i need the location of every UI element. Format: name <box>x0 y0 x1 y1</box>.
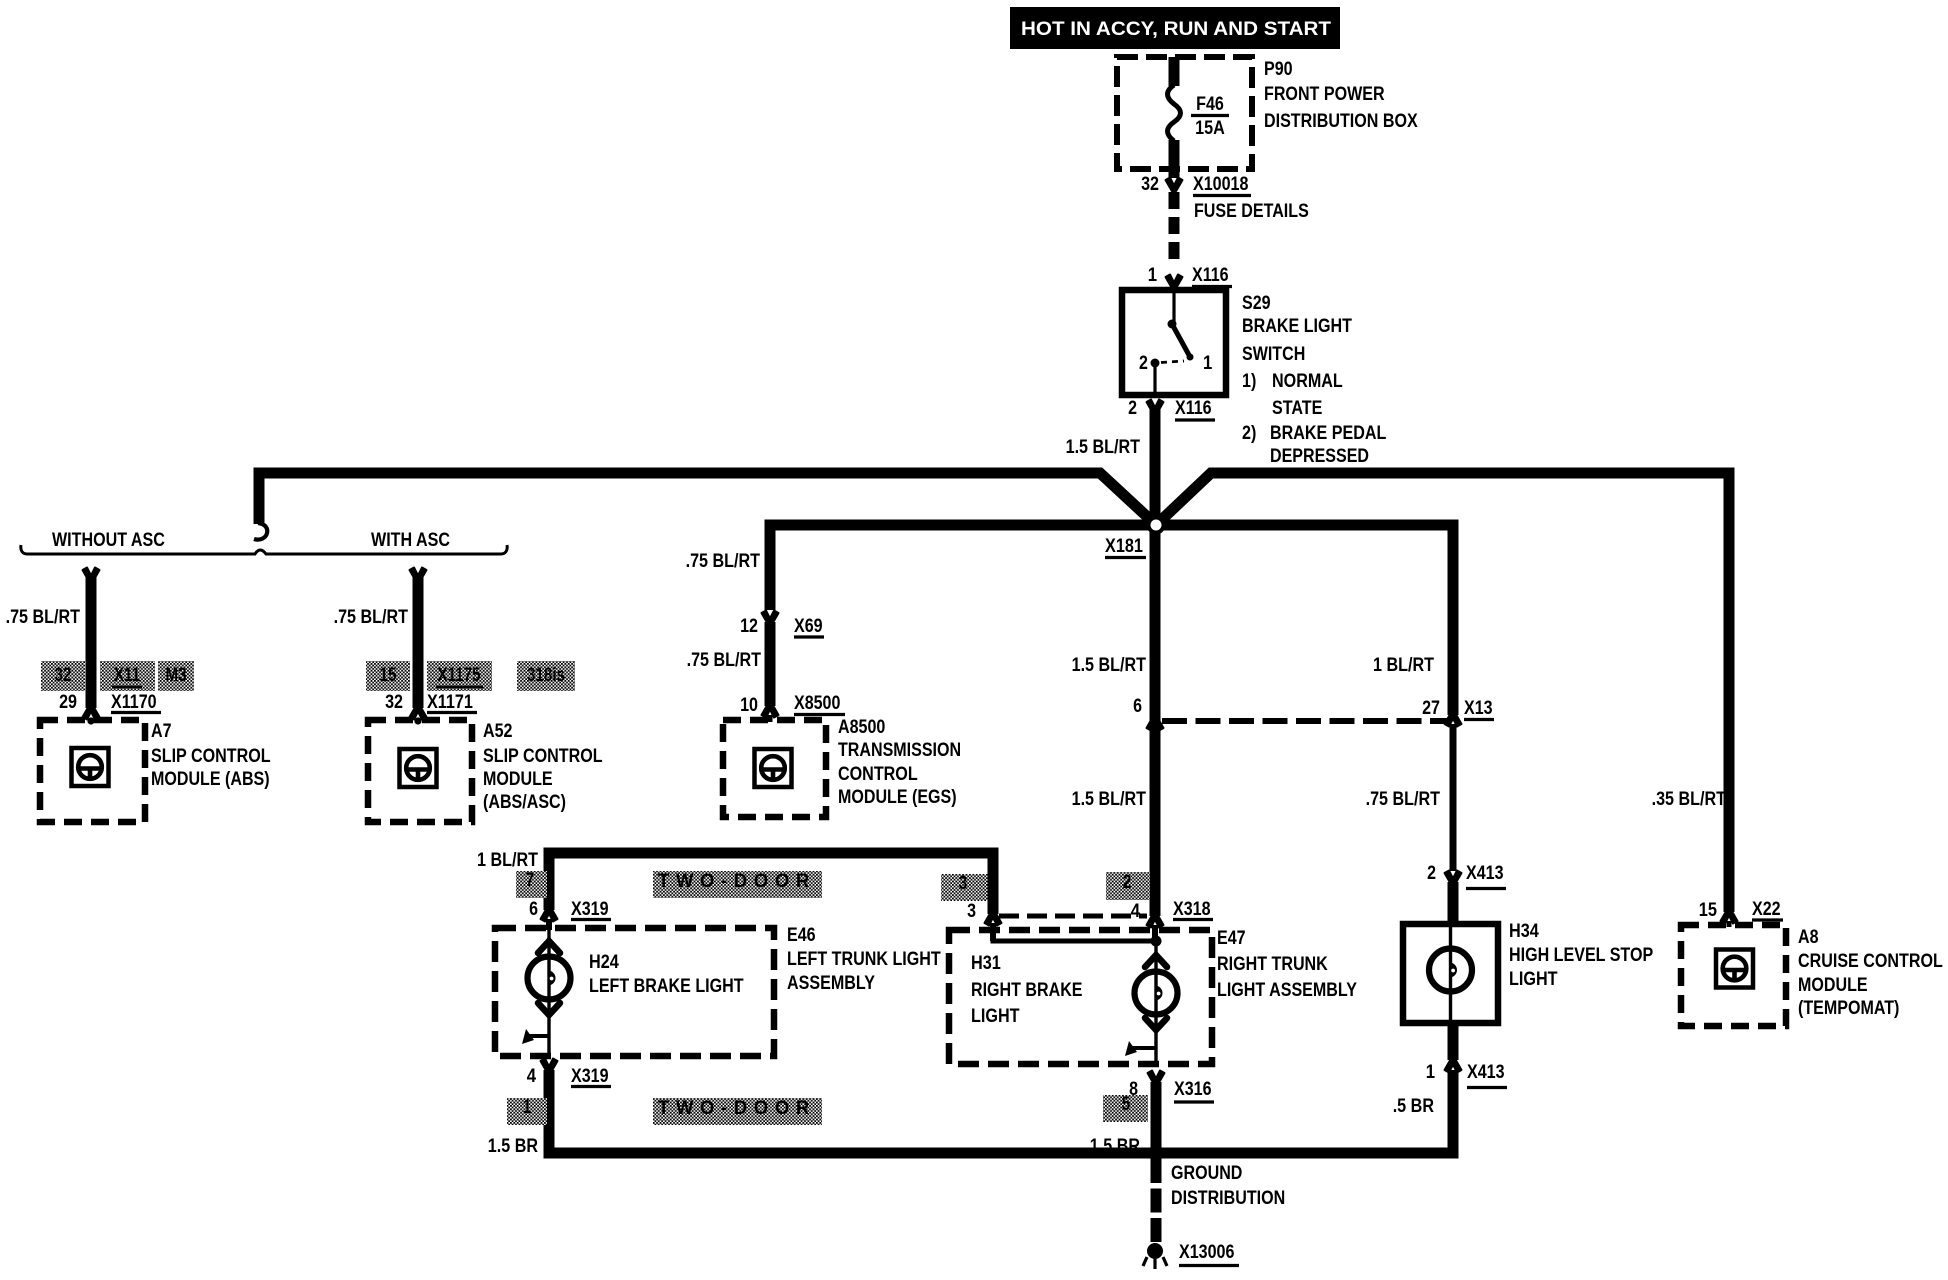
wire inside E47 <box>1154 941 1157 1066</box>
label X319 upper <box>571 899 611 920</box>
label X1171 <box>427 692 477 713</box>
label H34 HIGH LEVEL STOP LIGHT <box>1509 921 1653 990</box>
gray box X11 <box>100 661 155 691</box>
wire H24 down to ground bus <box>544 1070 555 1159</box>
label A7 SLIP CONTROL MODULE (ABS) <box>151 721 271 790</box>
svg-text:X22: X22 <box>1752 899 1781 920</box>
label 1 BL/RT (X13 branch) <box>1373 655 1434 676</box>
connector X69 pin 12 (fork) <box>762 611 779 625</box>
svg-text:BRAKE LIGHT: BRAKE LIGHT <box>1242 316 1352 337</box>
svg-text:SWITCH: SWITCH <box>1242 344 1305 365</box>
label .5 BR <box>1393 1096 1435 1117</box>
connector X318 pin 4 (fork) <box>1147 914 1164 941</box>
wire H31 down to ground bus <box>1151 1082 1162 1153</box>
svg-text:1.5 BL/RT: 1.5 BL/RT <box>1066 437 1141 458</box>
label X22 <box>1752 899 1783 920</box>
svg-text:LIGHT: LIGHT <box>971 1006 1020 1027</box>
svg-text:WITHOUT ASC: WITHOUT ASC <box>52 530 165 551</box>
svg-text:1.5 BL/RT: 1.5 BL/RT <box>1072 789 1147 810</box>
svg-text:27: 27 <box>1422 698 1440 719</box>
wire switch internal top <box>1172 288 1175 324</box>
svg-text:.5 BR: .5 BR <box>1393 1096 1435 1117</box>
svg-text:GROUND: GROUND <box>1171 1163 1242 1184</box>
svg-text:X8500: X8500 <box>794 693 840 714</box>
svg-text:X316: X316 <box>1174 1079 1212 1100</box>
svg-text:.75 BL/RT: .75 BL/RT <box>334 607 409 628</box>
svg-text:.35 BL/RT: .35 BL/RT <box>1652 789 1727 810</box>
lamp H31 contact upper <box>1145 955 1167 967</box>
svg-text:LIGHT ASSEMBLY: LIGHT ASSEMBLY <box>1217 980 1357 1001</box>
svg-text:X181: X181 <box>1105 536 1143 557</box>
label S29 BRAKE LIGHT SWITCH <box>1242 293 1387 467</box>
label H24 LEFT BRAKE LIGHT <box>589 952 744 997</box>
gray box M3 <box>158 661 194 691</box>
svg-text:WITH ASC: WITH ASC <box>371 530 450 551</box>
svg-text:X11: X11 <box>114 665 141 686</box>
wire trunk top horizontal <box>544 848 999 859</box>
svg-text:1: 1 <box>1148 265 1158 286</box>
label .35 BL/RT <box>1652 789 1727 810</box>
svg-text:5: 5 <box>1122 1094 1131 1115</box>
hook to ASC bracket <box>254 523 267 540</box>
wire pin3 link inside E47 <box>991 938 1156 944</box>
wire dashed X318 link <box>999 914 1147 919</box>
gray box 7 <box>516 870 547 898</box>
wire dashed X13 link <box>1162 718 1447 724</box>
svg-text:2: 2 <box>1123 872 1132 893</box>
svg-text:P90: P90 <box>1264 59 1293 80</box>
junction dot E47 <box>1151 936 1162 947</box>
svg-text:3: 3 <box>967 901 976 922</box>
svg-text:A52: A52 <box>483 721 513 742</box>
svg-text:DISTRIBUTION: DISTRIBUTION <box>1171 1188 1285 1209</box>
svg-text:HIGH LEVEL STOP: HIGH LEVEL STOP <box>1509 945 1653 966</box>
svg-text:.75 BL/RT: .75 BL/RT <box>6 607 81 628</box>
svg-text:15: 15 <box>380 665 397 686</box>
svg-text:LEFT BRAKE LIGHT: LEFT BRAKE LIGHT <box>589 976 744 997</box>
fuse F46 15A symbol <box>1168 85 1181 141</box>
svg-text:318is: 318is <box>527 665 565 686</box>
wire X13 to X413 <box>1450 724 1457 871</box>
label 2 <box>1128 398 1137 419</box>
connector X116 pin 2 (fork) <box>1147 400 1164 414</box>
label X116 <box>1192 265 1232 287</box>
svg-text:1 BL/RT: 1 BL/RT <box>477 850 538 871</box>
svg-text:1: 1 <box>523 1097 532 1118</box>
wire upper distribution right with diagonal <box>1155 473 1735 526</box>
connector X1171 pin 32 (fork) <box>410 706 427 725</box>
svg-text:A8: A8 <box>1798 927 1819 948</box>
label X8500 <box>794 693 845 715</box>
label 29 <box>59 692 77 713</box>
label E47 RIGHT TRUNK LIGHT ASSEMBLY <box>1217 928 1357 1001</box>
wire H34 down to ground bus <box>1448 1070 1459 1159</box>
svg-text:1): 1) <box>1242 371 1256 392</box>
label F46 15A <box>1191 94 1229 139</box>
label 1.5 BR (right) <box>1090 1136 1140 1157</box>
connector X316 pin 8 (fork) <box>1148 1071 1165 1085</box>
wire left drop to ASC bracket <box>254 468 265 525</box>
svg-text:STATE: STATE <box>1272 398 1322 419</box>
svg-text:(TEMPOMAT): (TEMPOMAT) <box>1798 998 1899 1019</box>
svg-text:X319: X319 <box>571 899 609 920</box>
svg-text:1.5 BL/RT: 1.5 BL/RT <box>1072 655 1147 676</box>
label 6 <box>1133 696 1142 717</box>
wire X13 branch upper <box>1448 520 1459 716</box>
wire A8 branch <box>1724 468 1735 913</box>
wire trunk left drop <box>544 848 555 911</box>
lamp H34 box <box>1403 924 1498 1023</box>
svg-text:X1175: X1175 <box>437 665 480 686</box>
svg-text:FUSE DETAILS: FUSE DETAILS <box>1194 201 1309 222</box>
wire fuse bottom <box>1169 140 1180 178</box>
wire fuse top <box>1169 57 1180 86</box>
label X319 lower <box>571 1066 611 1087</box>
label X318 <box>1173 899 1213 920</box>
wire H34 out <box>1448 1023 1459 1060</box>
wire switch internal bottom <box>1153 363 1156 392</box>
module A52 icon <box>400 749 437 787</box>
wire dashed fuse to switch <box>1169 192 1180 266</box>
label 12 <box>740 616 758 637</box>
svg-text:.75 BL/RT: .75 BL/RT <box>1366 789 1441 810</box>
svg-text:E47: E47 <box>1217 928 1246 949</box>
svg-text:A7: A7 <box>151 721 172 742</box>
svg-text:SLIP CONTROL: SLIP CONTROL <box>151 746 271 767</box>
svg-text:RIGHT TRUNK: RIGHT TRUNK <box>1217 954 1328 975</box>
label 1 (X413) <box>1426 1062 1436 1083</box>
connector X13 pin 27 (fork) <box>1445 713 1462 727</box>
junction ground node <box>1148 1145 1164 1161</box>
gray box 3 <box>941 873 988 901</box>
label WITH ASC <box>371 530 450 551</box>
wire X69 branch upper <box>765 520 776 611</box>
label 2 (X413) <box>1427 863 1436 884</box>
label E46 LEFT TRUNK LIGHT ASSEMBLY <box>787 925 941 994</box>
lamp H31 contact lower <box>1145 1018 1167 1030</box>
label .75 BL/RT (A52) <box>334 607 409 628</box>
gray box 15 (A52 row) <box>366 661 410 691</box>
module A7 icon <box>72 748 109 786</box>
label .75 BL/RT (A7) <box>6 607 81 628</box>
wire upper distribution left with diagonal <box>259 473 1155 524</box>
label X1170 <box>111 692 161 713</box>
svg-text:15A: 15A <box>1195 118 1225 139</box>
module A8500 icon <box>755 749 792 787</box>
svg-text:CONTROL: CONTROL <box>838 764 918 785</box>
svg-text:M3: M3 <box>165 665 186 686</box>
label 10 <box>740 695 758 716</box>
label 1.5 BL/RT (main upper) <box>1072 655 1147 676</box>
svg-text:DISTRIBUTION BOX: DISTRIBUTION BOX <box>1264 111 1418 132</box>
svg-text:1.5 BR: 1.5 BR <box>488 1136 538 1157</box>
svg-text:X1171: X1171 <box>427 692 473 713</box>
label X316 <box>1174 1079 1214 1102</box>
label .75 BL/RT (H34 branch) <box>1366 789 1441 810</box>
module A52 box (dashed) <box>368 720 472 822</box>
label FUSE DETAILS <box>1194 201 1309 222</box>
connector pin 6 arrow <box>1147 717 1164 731</box>
ground tap H24 <box>522 1029 549 1044</box>
svg-text:X10018: X10018 <box>1193 174 1248 195</box>
lamp H24 contact upper <box>538 941 560 953</box>
svg-text:X413: X413 <box>1466 863 1504 884</box>
wire junction horizontal <box>765 520 1459 531</box>
svg-text:1: 1 <box>1426 1062 1436 1083</box>
svg-text:MODULE: MODULE <box>483 769 553 790</box>
svg-text:LEFT TRUNK LIGHT: LEFT TRUNK LIGHT <box>787 949 941 970</box>
label X413 lower <box>1467 1062 1507 1088</box>
svg-text:RIGHT BRAKE: RIGHT BRAKE <box>971 980 1083 1001</box>
svg-text:TWO-DOOR: TWO-DOOR <box>658 1098 816 1119</box>
connector X318 pin 3 (fork) <box>985 912 1002 941</box>
svg-text:2: 2 <box>1139 353 1148 374</box>
lamp H24 contact lower <box>538 1003 560 1015</box>
wire inside E46 <box>547 928 550 1058</box>
svg-text:MODULE (EGS): MODULE (EGS) <box>838 787 957 808</box>
connector X413 pin 1 (fork) <box>1445 1059 1462 1073</box>
wire ground bus horizontal <box>544 1148 1459 1159</box>
label X181 <box>1105 536 1146 558</box>
label GROUND DISTRIBUTION <box>1171 1163 1285 1209</box>
svg-text:H34: H34 <box>1509 921 1539 942</box>
svg-text:X13006: X13006 <box>1179 1242 1234 1263</box>
label A8500 TRANSMISSION CONTROL MODULE (EGS) <box>838 717 961 808</box>
gray box 5 <box>1103 1094 1148 1122</box>
connector X8500 pin 10 (fork) <box>762 704 779 722</box>
svg-text:S29: S29 <box>1242 293 1271 314</box>
svg-text:FRONT POWER: FRONT POWER <box>1264 84 1385 105</box>
wire main vertical switch to X318 <box>1150 409 1161 916</box>
label 6 (X319) <box>529 899 538 920</box>
label X13006 <box>1179 1242 1239 1266</box>
svg-text:ASSEMBLY: ASSEMBLY <box>787 973 875 994</box>
power feed banner HOT IN ACCY RUN AND START <box>1010 7 1340 49</box>
connector X319 pin 4 (fork) <box>541 1059 558 1073</box>
connector X10018 pin 32 (fork) <box>1166 178 1183 192</box>
svg-text:29: 29 <box>59 692 77 713</box>
svg-text:X116: X116 <box>1175 398 1212 419</box>
svg-text:X13: X13 <box>1464 698 1493 719</box>
svg-text:6: 6 <box>529 899 538 920</box>
ground tap H31 <box>1125 1041 1156 1056</box>
label 15 <box>1699 900 1718 921</box>
gray box 318is <box>517 661 575 691</box>
lamp H34 bulb <box>1429 949 1472 992</box>
svg-text:.75 BL/RT: .75 BL/RT <box>687 650 762 671</box>
svg-text:.75 BL/RT: .75 BL/RT <box>686 551 761 572</box>
label 32 <box>1141 174 1159 195</box>
svg-text:4: 4 <box>527 1066 537 1087</box>
svg-text:A8500: A8500 <box>838 717 885 738</box>
module A8 box (dashed) <box>1681 925 1786 1026</box>
connector X413 pin 2 (fork) <box>1445 871 1462 885</box>
lamp H24 bulb <box>528 957 571 1000</box>
svg-text:32: 32 <box>1141 174 1159 195</box>
label 32 (A52) <box>385 692 403 713</box>
label H31 RIGHT BRAKE LIGHT <box>971 953 1083 1027</box>
label 8 <box>1129 1079 1138 1100</box>
svg-text:6: 6 <box>1133 696 1142 717</box>
svg-text:1 BL/RT: 1 BL/RT <box>1373 655 1434 676</box>
module A8 icon <box>1716 950 1753 988</box>
svg-text:CRUISE CONTROL: CRUISE CONTROL <box>1798 951 1943 972</box>
switch lever <box>1172 324 1194 361</box>
svg-text:SLIP CONTROL: SLIP CONTROL <box>483 746 603 767</box>
svg-text:15: 15 <box>1699 900 1718 921</box>
wire X413 to H34 <box>1448 882 1459 926</box>
svg-text:X318: X318 <box>1173 899 1211 920</box>
svg-text:32: 32 <box>55 665 72 686</box>
svg-text:BRAKE PEDAL: BRAKE PEDAL <box>1270 423 1387 444</box>
connector X319 pin 6 (fork) <box>541 908 558 930</box>
svg-text:X116: X116 <box>1192 265 1229 286</box>
svg-text:2): 2) <box>1242 423 1256 444</box>
label 3 (X318) <box>967 901 976 922</box>
label 2 (inside switch) <box>1139 353 1148 374</box>
label .75 BL/RT (X69 lower) <box>687 650 762 671</box>
ASC option bracket (thin line) <box>21 545 507 554</box>
label 1.5 BR (left) <box>488 1136 538 1157</box>
label X69 <box>794 616 824 637</box>
label A8 CRUISE CONTROL MODULE (TEMPOMAT) <box>1798 927 1943 1019</box>
label 1 BL/RT (trunk) <box>477 850 538 871</box>
label X10018 <box>1193 174 1251 196</box>
svg-text:2: 2 <box>1427 863 1436 884</box>
wire dashed ground drop <box>1151 1159 1162 1242</box>
label WITHOUT ASC <box>52 530 165 551</box>
label .75 BL/RT (X69 upper) <box>686 551 761 572</box>
svg-text:32: 32 <box>385 692 403 713</box>
svg-text:10: 10 <box>740 695 758 716</box>
svg-text:TWO-DOOR: TWO-DOOR <box>658 871 816 892</box>
label X116 lower <box>1175 398 1215 420</box>
connector X1170 pin 29 (fork) <box>83 706 100 725</box>
label X13 <box>1464 698 1494 720</box>
assembly E47 box (dashed) <box>949 930 1212 1064</box>
svg-text:MODULE: MODULE <box>1798 975 1868 996</box>
svg-text:(ABS/ASC): (ABS/ASC) <box>483 792 566 813</box>
label 4 (X318) <box>1131 901 1141 922</box>
label 27 <box>1422 698 1440 719</box>
svg-text:X1170: X1170 <box>111 692 157 713</box>
module A7 box (dashed) <box>40 720 145 822</box>
label P90 FRONT POWER DISTRIBUTION BOX <box>1264 59 1418 132</box>
wire inside H34 <box>1449 927 1452 1020</box>
gray box 2 <box>1106 872 1150 900</box>
gray box 1 <box>507 1097 547 1125</box>
switch dashed contact line <box>1161 361 1184 363</box>
svg-text:TRANSMISSION: TRANSMISSION <box>838 740 961 761</box>
gray box TWO-DOOR upper <box>653 871 822 898</box>
fuse box P90 (dashed) <box>1117 57 1252 169</box>
assembly E46 box (dashed) <box>495 928 774 1056</box>
gray box X1175 <box>427 661 492 691</box>
svg-text:DEPRESSED: DEPRESSED <box>1270 446 1369 467</box>
svg-text:X319: X319 <box>571 1066 609 1087</box>
svg-text:7: 7 <box>526 870 535 891</box>
svg-text:H31: H31 <box>971 953 1001 974</box>
wire branch A52 (fork top) <box>410 568 427 709</box>
svg-text:X413: X413 <box>1467 1062 1505 1083</box>
wire X69 branch lower <box>765 622 776 706</box>
gray box 32 (A7 row) <box>41 661 85 691</box>
connector X116 pin 1 (fork) <box>1166 275 1183 289</box>
label 1.5 BL/RT (switch output) <box>1066 437 1141 458</box>
svg-text:H24: H24 <box>589 952 619 973</box>
svg-text:E46: E46 <box>787 925 816 946</box>
svg-text:LIGHT: LIGHT <box>1509 969 1558 990</box>
junction X181 node <box>1149 518 1164 533</box>
lamp H31 bulb <box>1135 972 1178 1015</box>
label 1 <box>1148 265 1158 286</box>
svg-text:1: 1 <box>1203 353 1213 374</box>
svg-text:4: 4 <box>1131 901 1141 922</box>
label X413 upper <box>1466 863 1506 889</box>
svg-text:X69: X69 <box>794 616 823 637</box>
wire trunk right drop (pin 3) <box>988 848 999 915</box>
svg-text:F46: F46 <box>1196 94 1224 115</box>
label A52 SLIP CONTROL MODULE (ABS/ASC) <box>483 721 603 813</box>
module A8500 box (dashed) <box>723 720 826 817</box>
svg-text:NORMAL: NORMAL <box>1272 371 1343 392</box>
label 1.5 BL/RT (main lower) <box>1072 789 1147 810</box>
ground terminal X13006 <box>1143 1243 1167 1269</box>
svg-text:HOT IN ACCY, RUN AND START: HOT IN ACCY, RUN AND START <box>1021 19 1331 40</box>
switch pivot contact <box>1168 320 1177 329</box>
svg-text:MODULE (ABS): MODULE (ABS) <box>151 769 270 790</box>
svg-text:3: 3 <box>959 873 968 894</box>
switch S29 box <box>1122 290 1226 395</box>
svg-text:12: 12 <box>740 616 758 637</box>
connector X22 pin 15 (fork) <box>1721 910 1738 927</box>
svg-text:2: 2 <box>1128 398 1137 419</box>
switch contact 2 <box>1151 359 1160 368</box>
wire branch A7 (fork top) <box>83 568 100 709</box>
label 4 (X319) <box>527 1066 537 1087</box>
label 1 (inside switch) <box>1203 353 1213 374</box>
gray box TWO-DOOR lower <box>653 1098 822 1125</box>
